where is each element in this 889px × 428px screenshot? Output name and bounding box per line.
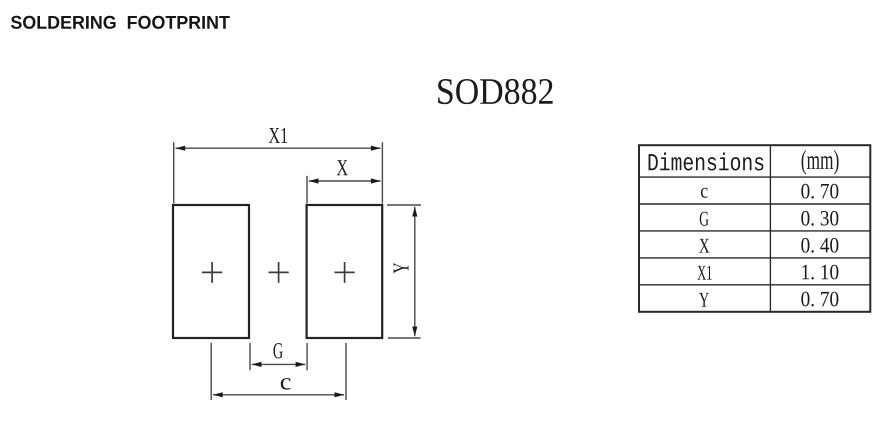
table column divider xyxy=(769,145,771,312)
table row label Y xyxy=(699,293,709,307)
title SOLDERING FOOTPRINT xyxy=(11,16,230,29)
dimension X line with arrows xyxy=(309,178,381,183)
table row label G xyxy=(700,212,709,226)
center mark left pad xyxy=(202,262,222,283)
label Y (rotated) xyxy=(394,263,409,274)
dimension X1 line with arrows xyxy=(176,146,381,151)
dimension G line with arrows xyxy=(252,362,305,367)
pad right xyxy=(307,205,383,338)
label c xyxy=(281,378,291,390)
table row line under header xyxy=(639,176,870,178)
dimension Y extension line top xyxy=(387,204,421,206)
dimension X1 extension line left xyxy=(173,142,175,203)
dimension c line with arrows xyxy=(213,392,344,397)
table row line 3 xyxy=(639,230,870,232)
table header Dimensions xyxy=(649,153,764,171)
center mark middle xyxy=(269,262,289,283)
table row label c xyxy=(701,188,708,198)
table row line 5 xyxy=(639,284,870,286)
table row label X xyxy=(699,239,709,253)
table row label X1 xyxy=(697,266,711,280)
label X1 xyxy=(269,128,287,143)
table value G 0.30 xyxy=(801,211,838,226)
table row line 4 xyxy=(639,257,870,259)
table value c 0.70 xyxy=(801,184,838,199)
package name SOD882 xyxy=(438,79,552,104)
dimension Y extension line bottom xyxy=(388,337,421,339)
center mark right pad xyxy=(335,262,355,283)
dimension X1 extension line right xyxy=(381,142,383,203)
pad left xyxy=(173,205,249,338)
dimension Y line with arrows xyxy=(412,207,417,336)
table value Y 0.70 xyxy=(801,292,838,307)
table outer border xyxy=(639,145,870,312)
dimension c extension line left xyxy=(210,343,212,400)
dimension G extension line right xyxy=(306,343,308,371)
dimension c extension line right xyxy=(345,343,347,400)
table value X 0.40 xyxy=(801,238,838,253)
dimension G extension line left xyxy=(249,343,251,371)
table header (mm) xyxy=(802,150,839,174)
table row line 2 xyxy=(639,203,870,205)
table value X1 1.10 xyxy=(802,265,838,280)
label X xyxy=(337,160,348,175)
label G xyxy=(273,343,282,358)
dimension X extension line left xyxy=(306,176,308,204)
